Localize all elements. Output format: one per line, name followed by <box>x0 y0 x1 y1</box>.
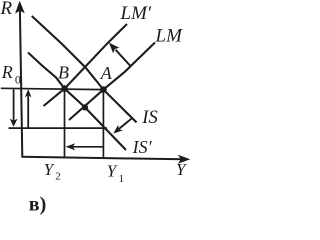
svg-text:0: 0 <box>15 72 21 86</box>
Y axis arrowhead <box>178 155 191 164</box>
point C (unlabeled intersection) <box>82 104 88 110</box>
LM shift arrow <box>116 50 131 66</box>
Y2 guide line <box>64 89 66 158</box>
svg-text:Y: Y <box>176 160 187 179</box>
svg-text:Y: Y <box>107 162 118 181</box>
LM' curve <box>44 24 128 106</box>
up arrow <box>27 96 29 129</box>
svg-text:в): в) <box>29 194 46 216</box>
svg-text:2: 2 <box>55 171 61 183</box>
IS shift arrow <box>119 118 133 129</box>
svg-text:B: B <box>58 63 69 83</box>
R axis arrowhead <box>15 1 25 14</box>
svg-text:R: R <box>0 0 13 19</box>
svg-text:Y: Y <box>44 160 55 179</box>
svg-text:LM′: LM′ <box>120 3 152 24</box>
Y1 guide line <box>102 90 104 159</box>
R axis <box>20 9 22 157</box>
LM curve <box>69 43 155 121</box>
svg-text:1: 1 <box>119 173 125 185</box>
down arrow <box>13 89 15 121</box>
point A <box>100 86 107 93</box>
svg-text:R: R <box>1 62 13 82</box>
svg-text:A: A <box>100 63 113 83</box>
Y axis <box>22 157 184 160</box>
svg-text:IS′: IS′ <box>132 137 153 157</box>
lower level line <box>9 127 108 129</box>
R0 level line <box>1 88 104 89</box>
left arrow (Y1 to Y2) <box>73 146 103 148</box>
IS curve <box>32 16 137 122</box>
svg-text:IS: IS <box>141 108 157 128</box>
IS' curve <box>28 53 126 151</box>
point B <box>61 85 68 92</box>
svg-text:LM: LM <box>155 26 184 47</box>
